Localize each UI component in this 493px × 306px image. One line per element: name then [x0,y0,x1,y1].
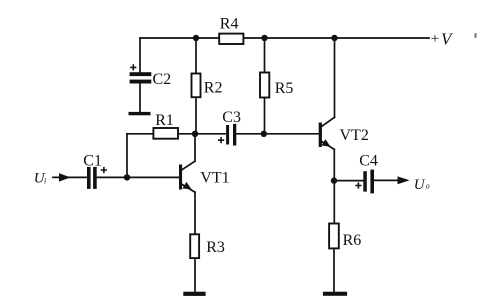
svg-text:U: U [414,177,426,193]
svg-text:R3: R3 [206,239,225,256]
svg-text:i: i [44,177,46,186]
svg-text:VT2: VT2 [340,127,369,144]
svg-text:C2: C2 [153,71,172,88]
svg-text:VT1: VT1 [200,170,229,187]
svg-text:o: o [426,182,430,191]
svg-text:R2: R2 [204,80,223,97]
svg-text:R5: R5 [275,80,294,97]
svg-text:R6: R6 [343,232,362,249]
svg-text:+: + [431,31,439,47]
svg-text:C1: C1 [83,153,102,170]
svg-text:C4: C4 [359,152,378,169]
svg-text:R1: R1 [155,112,174,129]
svg-text:C3: C3 [222,109,241,126]
svg-text:R4: R4 [220,15,239,32]
